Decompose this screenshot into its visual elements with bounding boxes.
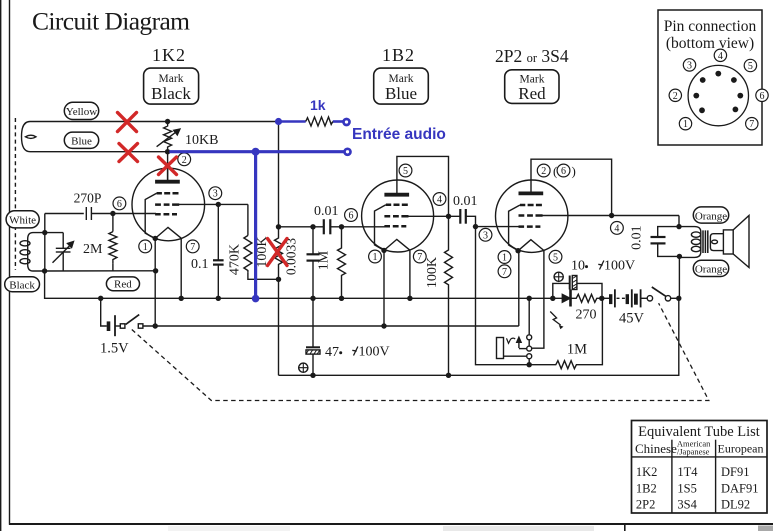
svg-text:100V: 100V (359, 345, 390, 360)
label oval Yellow (64, 102, 98, 119)
label oval Black (5, 277, 40, 292)
wire 270P to grid (91, 213, 156, 215)
wire grid return (476, 227, 530, 365)
wire 1k feed blue (279, 120, 306, 123)
potentiometer 10KB (157, 119, 180, 155)
pin 7 label V2 (413, 250, 426, 263)
svg-text:Black: Black (9, 279, 35, 291)
pin 5 label V3 (549, 250, 562, 263)
svg-text:DAF91: DAF91 (721, 482, 759, 496)
svg-text:470K: 470K (228, 244, 243, 275)
wire V3 plate top loop (531, 159, 612, 215)
svg-text:Yellow: Yellow (66, 106, 97, 118)
capacitor 0.01 across primary (629, 225, 679, 256)
dashed chassis line left (14, 118, 16, 270)
wire audio mod line blue (169, 150, 344, 153)
ground bus bottom (279, 298, 679, 375)
svg-text:6: 6 (349, 211, 354, 222)
speaker (723, 216, 749, 268)
svg-text:Black: Black (151, 84, 191, 103)
svg-text:6: 6 (117, 199, 122, 210)
svg-text:5: 5 (403, 166, 408, 177)
wire V2 fil-right down (409, 250, 411, 298)
svg-text:45V: 45V (619, 311, 645, 327)
resistor 100K crossed out (255, 227, 283, 279)
svg-text:1B2: 1B2 (636, 482, 657, 496)
svg-text:1S5: 1S5 (677, 482, 696, 496)
svg-text:2P2: 2P2 (636, 498, 655, 512)
tube V1 plate bar (155, 180, 180, 184)
svg-text:7: 7 (502, 267, 507, 278)
svg-text:3: 3 (483, 230, 488, 241)
tube V1 1K2 envelope (132, 168, 205, 241)
twisted pair marker (25, 135, 36, 138)
node 2M bottom (153, 268, 158, 273)
svg-text:0.1: 0.1 (191, 257, 209, 272)
label oval Red (106, 277, 139, 291)
wire grid link (279, 226, 324, 228)
headphone jack (497, 298, 532, 364)
svg-text:3S4: 3S4 (677, 498, 697, 512)
svg-text:Red: Red (114, 279, 132, 291)
svg-text:100K: 100K (425, 257, 440, 288)
socket pin 1 label (679, 118, 691, 131)
svg-text:6: 6 (760, 91, 765, 102)
wire audio mod drop blue (254, 152, 257, 298)
tube V2 grid dashes (384, 205, 408, 226)
svg-text:White: White (9, 214, 36, 226)
svg-text:2P2 or 3S4: 2P2 or 3S4 (495, 46, 569, 66)
socket pin 7 label (746, 118, 758, 131)
pin 5 label V2 (399, 164, 412, 177)
tube V1 filament (155, 227, 181, 238)
tube V1 cathode rod (145, 193, 156, 238)
pin 6 label V1 (113, 197, 126, 210)
pin 2 label V1 (178, 153, 191, 166)
pin connection box (658, 10, 762, 145)
label oval Orange bottom (693, 260, 728, 276)
svg-text:4: 4 (614, 223, 619, 234)
svg-text:2: 2 (541, 166, 546, 177)
wire V1 fil-right down (180, 238, 182, 298)
cut mark X plate lead (159, 157, 177, 175)
wire transformer top feed (678, 216, 680, 227)
pin 4 label V3 (611, 222, 624, 235)
diode detector (562, 290, 570, 307)
svg-text:DL92: DL92 (721, 498, 750, 512)
tube V3 grid dashes (519, 205, 543, 227)
pin 1 label V2 (369, 250, 382, 263)
wire V2 fil-left down (383, 250, 385, 326)
resistor 270 (571, 294, 602, 322)
node coil top to white wire (44, 214, 46, 233)
socket pin 4 label (714, 49, 726, 62)
svg-text:European: European (718, 442, 764, 456)
transformer T1 core (703, 230, 708, 253)
socket pin 6 label (756, 89, 768, 102)
Mark Blue box (374, 68, 429, 104)
socket pin 2 label (669, 89, 681, 102)
capacitor 0.01 coupling V2 (314, 204, 385, 235)
svg-text:1: 1 (502, 253, 507, 264)
wire V2 plate top loop (397, 156, 449, 216)
switch S2 B+ (647, 287, 679, 301)
wire main ground rail (101, 297, 563, 299)
resistor 1M grid leak V2 (317, 227, 346, 298)
tube V2 cathode rod (375, 205, 386, 251)
transformer T1 primary (677, 227, 701, 260)
Mark Red box (505, 70, 559, 104)
capacitor 47uF 100V electrolytic (299, 298, 390, 375)
dashed gang link (132, 303, 709, 400)
svg-text:/Japanese: /Japanese (677, 447, 710, 457)
Mark Black box (144, 68, 199, 104)
svg-text:270: 270 (576, 308, 597, 323)
cut mark X 100K resistor (268, 239, 288, 266)
tube socket bottom view (688, 65, 748, 125)
tube V1 grid dashes (155, 193, 179, 214)
svg-text:Orange: Orange (695, 210, 727, 222)
svg-text:4: 4 (718, 51, 723, 62)
wire transformer bottom to switch (678, 256, 680, 298)
label oval White (6, 211, 39, 228)
resistor 100K detector load (425, 216, 453, 375)
tube V2 plate bar (384, 193, 409, 197)
equivalent tube list table (632, 421, 768, 514)
arrow adjustment mark (550, 312, 561, 326)
svg-text:5: 5 (748, 61, 753, 72)
svg-text:2M: 2M (83, 242, 103, 257)
wire V3 fil-right down to jack (532, 251, 544, 349)
battery 1.5V (100, 298, 129, 356)
socket pin 5 label (744, 59, 756, 72)
svg-text:Entrée audio: Entrée audio (352, 126, 446, 143)
antenna coil L1 (20, 230, 48, 274)
cut mark X blue wire (119, 144, 138, 162)
svg-text:7: 7 (190, 242, 195, 253)
capacitor 270P (74, 191, 102, 221)
svg-text:1K2: 1K2 (152, 45, 186, 65)
capacitor 0.1 (191, 204, 224, 298)
transformer T1 secondary (710, 234, 723, 251)
pin 7 label V1 (186, 240, 199, 253)
svg-text:5: 5 (553, 252, 558, 263)
svg-text:3: 3 (213, 189, 218, 200)
svg-text:1.5V: 1.5V (100, 341, 129, 357)
svg-text:2: 2 (673, 91, 678, 102)
resistor 470K (228, 204, 279, 279)
cut mark X yellow wire (118, 113, 137, 132)
svg-text:0.0033: 0.0033 (284, 238, 299, 275)
wire plate lead from pot to tube V1 (167, 152, 169, 181)
wire top feed down to V2 grid (278, 122, 280, 227)
wire V3 screen to transformer (536, 215, 679, 217)
tube V3 plate bar (519, 191, 544, 195)
svg-text:1: 1 (143, 242, 148, 253)
node grid junction (110, 211, 115, 216)
svg-text:Blue: Blue (71, 135, 92, 147)
pin 6 label V2 (345, 209, 358, 222)
pin 1 label V3 (498, 251, 511, 264)
node blue tap (275, 118, 282, 125)
svg-text:1: 1 (683, 119, 688, 130)
svg-text:10: 10 (571, 259, 585, 274)
svg-text:0.01: 0.01 (314, 204, 339, 219)
terminal audio out upper (344, 119, 350, 125)
resistor 1M output grid leak (529, 298, 602, 368)
svg-text:1: 1 (373, 252, 378, 263)
svg-text:3: 3 (687, 60, 692, 71)
wire V3 fil-left down (518, 251, 520, 326)
svg-text:7: 7 (749, 119, 754, 130)
svg-text:7: 7 (417, 252, 422, 263)
svg-text:4: 4 (437, 195, 442, 206)
svg-text:Blue: Blue (385, 84, 417, 103)
svg-text:10KB: 10KB (185, 133, 218, 148)
tube V2 filament (384, 239, 410, 250)
wire coil bottom to rail (45, 271, 101, 298)
pin 4 label V2 (433, 193, 446, 206)
terminal audio out lower (345, 149, 351, 155)
svg-text:1B2: 1B2 (382, 45, 415, 65)
wire yellow lead (22, 122, 168, 152)
svg-text:1T4: 1T4 (677, 465, 698, 479)
svg-text:1M: 1M (317, 250, 332, 270)
resistor 2M (83, 214, 117, 271)
svg-text:100V: 100V (604, 259, 635, 274)
svg-text:47: 47 (325, 345, 339, 360)
svg-text:2: 2 (182, 155, 187, 166)
wire white top (45, 213, 84, 215)
svg-text:Red: Red (518, 84, 546, 103)
svg-text:DF91: DF91 (721, 465, 749, 479)
capacitor 0.01 coupling V3 (453, 194, 478, 227)
svg-text:6: 6 (561, 166, 566, 177)
wire V1 fil-left down (154, 238, 156, 326)
battery 45V (602, 289, 647, 326)
wire yellow to blue node (168, 121, 279, 123)
wire V2 screen out (402, 215, 460, 217)
tube V2 1B2 envelope (362, 180, 434, 252)
tube V3 cathode rod (509, 205, 520, 251)
svg-text:Orange: Orange (695, 264, 727, 276)
variable capacitor tuning (45, 233, 74, 271)
wire V1 plate out (173, 203, 248, 205)
pin 3 label V3 (479, 228, 492, 241)
switch S1 filament (115, 315, 519, 329)
pin 7 label V3 (498, 265, 511, 278)
label oval Orange top (693, 207, 728, 223)
capacitor 0.0033 (284, 227, 320, 298)
wire to V3 grid (476, 226, 519, 228)
svg-text:270P: 270P (74, 191, 102, 206)
svg-text:): ) (572, 164, 576, 179)
svg-text:1k: 1k (310, 97, 326, 113)
tube V3 filament (518, 240, 544, 251)
svg-text:0.01: 0.01 (629, 225, 644, 250)
pin 3 label V1 (209, 187, 222, 200)
resistor 1k (306, 117, 333, 126)
svg-text:(bottom view): (bottom view) (666, 35, 754, 52)
socket pin 3 label (683, 59, 695, 72)
svg-text:0.01: 0.01 (453, 194, 478, 209)
capacitor 10uF 100V electrolytic (553, 259, 635, 299)
pin 2 label V3 (537, 164, 550, 177)
svg-text:1K2: 1K2 (636, 465, 658, 479)
svg-text:Circuit Diagram: Circuit Diagram (32, 7, 190, 36)
wire coil bottom run (45, 270, 156, 272)
pin 1 label V1 (139, 240, 152, 253)
node blue ground end (252, 295, 260, 303)
svg-text:1M: 1M (567, 342, 587, 358)
label oval Blue (64, 132, 98, 148)
svg-text:Pin connection: Pin connection (664, 18, 757, 35)
tube V3 2P2 envelope (496, 180, 568, 252)
wire 100K bottom down to bus (278, 279, 280, 375)
svg-text:Chinese: Chinese (635, 441, 677, 456)
